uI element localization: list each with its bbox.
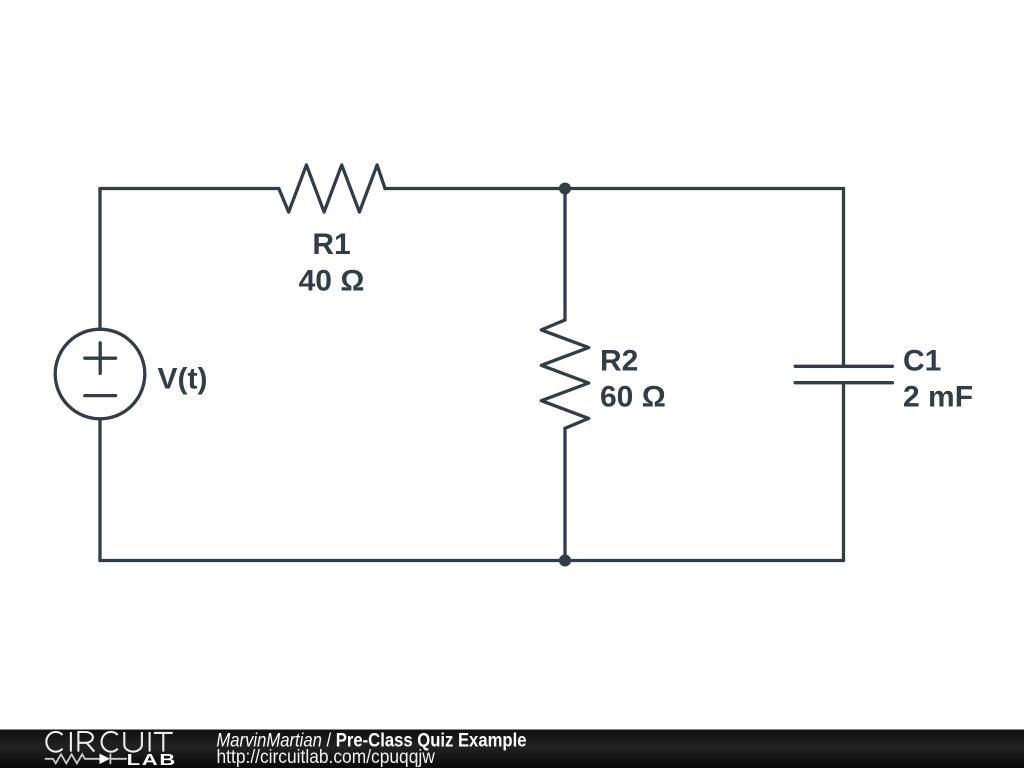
svg-text:http://circuitlab.com/cpuqqjw: http://circuitlab.com/cpuqqjw bbox=[217, 746, 436, 767]
resistor R1 bbox=[279, 165, 385, 212]
logo diode triangle bbox=[100, 754, 111, 764]
V1 plus sign bbox=[85, 343, 116, 374]
svg-text:LAB: LAB bbox=[127, 752, 177, 768]
capacitor C1 plates bbox=[795, 366, 892, 382]
wire top-right horizontal bbox=[565, 187, 844, 190]
wire top-left horizontal bbox=[100, 187, 279, 190]
node junction bottom bbox=[559, 555, 571, 567]
wire left vertical lower bbox=[98, 419, 101, 561]
wire top-middle bbox=[385, 187, 565, 190]
svg-text:R2: R2 bbox=[600, 345, 638, 378]
footer bar bbox=[0, 730, 1024, 768]
wire right vertical lower bbox=[842, 383, 845, 561]
svg-text:2 mF: 2 mF bbox=[903, 381, 973, 414]
svg-text:60 Ω: 60 Ω bbox=[600, 381, 666, 414]
voltage source V1 circle bbox=[55, 329, 145, 419]
wire left vertical upper bbox=[98, 189, 101, 330]
resistor R2 bbox=[541, 320, 588, 428]
wire right vertical upper bbox=[842, 189, 845, 367]
logo CIRCUIT wordmark bbox=[46, 732, 172, 752]
wire middle vertical upper bbox=[563, 189, 566, 321]
svg-text:V(t): V(t) bbox=[158, 363, 208, 396]
wire bottom horizontal bbox=[100, 559, 844, 562]
svg-text:40 Ω: 40 Ω bbox=[299, 265, 365, 298]
logo resistor-diode line bbox=[45, 754, 127, 765]
V1 minus sign bbox=[85, 394, 116, 397]
wire middle vertical lower bbox=[563, 428, 566, 560]
node junction top bbox=[559, 183, 571, 195]
svg-text:R1: R1 bbox=[312, 228, 350, 261]
svg-text:C1: C1 bbox=[903, 345, 941, 378]
